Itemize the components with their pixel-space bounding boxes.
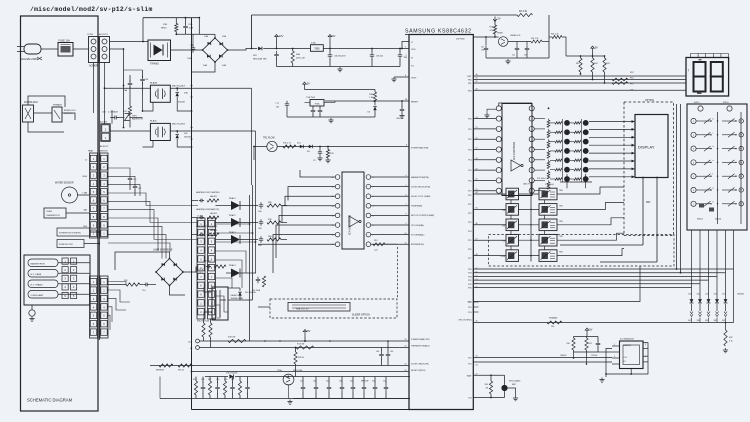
wires HV box bbox=[58, 262, 90, 264]
wire VDD pin to TR2 bbox=[473, 36, 498, 38]
svg-text:VDD: VDD bbox=[411, 49, 416, 51]
svg-text:RLA4B: RLA4B bbox=[150, 81, 157, 84]
svg-text:R60: R60 bbox=[576, 63, 579, 65]
pump motor label box bbox=[57, 240, 84, 248]
svg-text:19: 19 bbox=[476, 168, 478, 170]
resistors under strip C bbox=[202, 323, 205, 337]
matrix emitter rail bbox=[560, 181, 592, 183]
svg-text:h: h bbox=[713, 201, 714, 203]
svg-text:C40: C40 bbox=[350, 381, 353, 383]
svg-text:55: 55 bbox=[476, 287, 478, 289]
wires lamp bridge bbox=[108, 284, 126, 286]
key matrix right pins bbox=[739, 119, 743, 123]
svg-text:P57: P57 bbox=[468, 191, 471, 193]
connector CON1 bbox=[89, 37, 99, 63]
svg-text:5V: 5V bbox=[498, 18, 501, 21]
svg-text:PUMP MOTOR: PUMP MOTOR bbox=[59, 244, 73, 246]
connector strip CN3 bbox=[90, 276, 98, 338]
capacitor C1A bbox=[183, 23, 188, 30]
IC2 KID65004 body bbox=[502, 104, 532, 196]
wire relay1 feed bbox=[105, 87, 151, 89]
capacitor C20 bbox=[128, 175, 133, 182]
svg-text:6: 6 bbox=[406, 194, 407, 196]
connector CON2 bbox=[101, 124, 110, 142]
svg-text:P51: P51 bbox=[468, 302, 471, 304]
svg-text:150: 150 bbox=[524, 55, 527, 57]
wire KEY-OUT rail bbox=[473, 322, 733, 324]
capacitor C45 bbox=[596, 340, 601, 348]
resistor R16 bbox=[178, 364, 192, 367]
svg-text:C2A: C2A bbox=[187, 57, 192, 60]
svg-text:5: 5 bbox=[406, 185, 407, 187]
svg-text:2N4148: 2N4148 bbox=[178, 102, 185, 104]
IC2 right pins bbox=[529, 106, 534, 111]
capacitor C12A bbox=[285, 101, 290, 108]
svg-text:D45: D45 bbox=[714, 294, 717, 296]
svg-text:TCA 750K: TCA 750K bbox=[306, 96, 316, 99]
svg-text:/misc/model/mod2/sv-p12/s-slim: /misc/model/mod2/sv-p12/s-slim bbox=[30, 6, 153, 13]
transistor matrix bbox=[555, 122, 562, 124]
svg-text:2: 2 bbox=[645, 356, 646, 358]
svg-text:MAGNETRON: MAGNETRON bbox=[31, 262, 46, 265]
svg-text:14: 14 bbox=[476, 117, 478, 119]
svg-text:32: 32 bbox=[476, 81, 478, 83]
5V arrow pullups bbox=[591, 46, 595, 52]
wire door lock bbox=[34, 112, 52, 114]
svg-text:HELAY1: HELAY1 bbox=[210, 195, 217, 198]
svg-text:1N4148: 1N4148 bbox=[737, 294, 744, 296]
zener ZD1 bbox=[300, 145, 304, 149]
svg-text:8: 8 bbox=[614, 356, 615, 358]
key matrix column drops bbox=[691, 230, 693, 288]
svg-text:BKP: BKP bbox=[512, 384, 517, 386]
svg-text:P21: P21 bbox=[468, 364, 471, 366]
HV box pin squares bbox=[62, 258, 68, 264]
svg-text:SW1-5: SW1-5 bbox=[694, 102, 700, 104]
svg-text:REGULAR 78M: REGULAR 78M bbox=[253, 58, 267, 61]
svg-text:1/2W: 1/2W bbox=[189, 28, 194, 30]
svg-text:SW: SW bbox=[705, 320, 708, 322]
diode D4C for relay2 bbox=[175, 135, 179, 139]
capacitor row bottom right bbox=[301, 383, 306, 394]
svg-text:DISPLAY: DISPLAY bbox=[638, 145, 655, 150]
svg-text:R17 1M: R17 1M bbox=[297, 344, 305, 346]
svg-text:LATCH: LATCH bbox=[523, 183, 530, 186]
svg-text:8: 8 bbox=[406, 214, 407, 216]
svg-text:KRC102(AT): KRC102(AT) bbox=[509, 380, 521, 383]
svg-text:C41: C41 bbox=[326, 381, 329, 383]
key switch row 3 bbox=[696, 148, 711, 150]
svg-text:P60: P60 bbox=[630, 78, 633, 80]
capacitor C4A bbox=[274, 51, 279, 59]
svg-text:4: 4 bbox=[645, 344, 646, 346]
wire TR1 base bbox=[254, 146, 267, 148]
wire relay2 feed bbox=[110, 130, 150, 132]
svg-text:18: 18 bbox=[476, 158, 478, 160]
svg-text:5: 5 bbox=[614, 344, 615, 346]
svg-text:C21: C21 bbox=[138, 188, 141, 190]
svg-text:OVEN: OVEN bbox=[46, 211, 52, 213]
svg-text:C14: C14 bbox=[142, 290, 145, 292]
driver pair row 4 bbox=[506, 234, 519, 246]
svg-text:4.7k: 4.7k bbox=[729, 341, 733, 343]
svg-text:D1: D1 bbox=[624, 361, 626, 363]
wire vertical bus x191 bbox=[191, 18, 193, 410]
svg-text:5V: 5V bbox=[595, 45, 598, 49]
capacitor C11 bbox=[485, 37, 487, 45]
HV parts box bbox=[24, 255, 90, 305]
svg-text:H.V. CAPA: H.V. CAPA bbox=[31, 273, 42, 276]
junctions P20 P21 bbox=[573, 357, 575, 359]
neutral arrow bbox=[37, 57, 42, 60]
svg-text:C4: C4 bbox=[85, 160, 87, 162]
svg-text:P51: P51 bbox=[468, 129, 471, 131]
resistor R4 bbox=[517, 13, 533, 16]
wire key bus 5 bbox=[473, 287, 691, 289]
wires CON2 area bbox=[110, 117, 113, 119]
wire bus P63 bbox=[473, 89, 685, 91]
key switch row 2 bbox=[696, 134, 711, 136]
wire snubber to bridge top bbox=[198, 18, 200, 35]
svg-text:H.V. TRANS: H.V. TRANS bbox=[31, 283, 44, 286]
svg-text:33: 33 bbox=[476, 88, 478, 90]
svg-text:IC3 KIA4011B: IC3 KIA4011B bbox=[620, 338, 634, 341]
wire fuse to connector bbox=[73, 48, 89, 50]
display module box bbox=[635, 115, 668, 178]
7-segment digit 1 bbox=[694, 62, 706, 77]
svg-text:DOOR SEQ.NO(P40): DOOR SEQ.NO(P40) bbox=[411, 186, 431, 188]
capacitor C5A bbox=[328, 51, 333, 60]
svg-text:AC(T)N: AC(T)N bbox=[100, 120, 107, 123]
wires strip B to right bbox=[108, 282, 126, 285]
IC4 left pins bbox=[335, 175, 340, 180]
svg-text:D43: D43 bbox=[705, 294, 708, 296]
svg-text:20: 20 bbox=[476, 179, 478, 181]
diode D10 bbox=[238, 292, 242, 296]
svg-text:DP 120V(FA4): DP 120V(FA4) bbox=[411, 224, 424, 227]
svg-text:10: 10 bbox=[405, 233, 407, 235]
svg-text:R5L 2.2k: R5L 2.2k bbox=[531, 38, 539, 40]
svg-text:C12: C12 bbox=[512, 55, 515, 57]
transistor TR30 bbox=[283, 374, 294, 385]
diode D6 bbox=[373, 107, 377, 111]
pullup rail bbox=[566, 55, 605, 57]
wire VDD corner bbox=[402, 42, 409, 49]
svg-text:21: 21 bbox=[476, 189, 478, 191]
svg-text:KEY-OUT(P50): KEY-OUT(P50) bbox=[459, 320, 472, 322]
resistor R13 buzzer bbox=[373, 243, 385, 246]
svg-text:SW(-7): SW(-7) bbox=[697, 219, 703, 221]
svg-text:750K: 750K bbox=[314, 103, 320, 105]
IC4 inverter symbol bbox=[349, 216, 359, 227]
svg-text:48: 48 bbox=[476, 254, 478, 256]
svg-text:SW: SW bbox=[697, 320, 700, 322]
wire WAIT bbox=[473, 374, 504, 376]
svg-text:R45: R45 bbox=[485, 384, 488, 386]
svg-text:222: 222 bbox=[383, 381, 386, 383]
wire power fail line bbox=[277, 146, 409, 148]
svg-text:4: 4 bbox=[405, 75, 406, 77]
svg-text:COOL A: COOL A bbox=[196, 268, 204, 271]
IC4 KID65003 body bbox=[342, 172, 364, 249]
svg-text:KIA4558: KIA4558 bbox=[624, 344, 631, 347]
svg-text:P52: P52 bbox=[468, 307, 471, 309]
svg-text:0.1 MKADE: 0.1 MKADE bbox=[108, 111, 119, 114]
relay RY5 thermostat box bbox=[212, 287, 228, 320]
svg-text:R42: R42 bbox=[729, 337, 732, 339]
svg-text:C13: C13 bbox=[201, 379, 204, 381]
svg-text:CON1: CON1 bbox=[87, 34, 94, 36]
svg-text:D1A: D1A bbox=[204, 35, 209, 38]
wire top loop with R4 bbox=[548, 15, 550, 58]
relay RY4 snubber bbox=[206, 265, 211, 269]
regulator IC4A 7805 bbox=[311, 45, 324, 52]
svg-text:44: 44 bbox=[476, 192, 478, 194]
svg-text:1: 1 bbox=[693, 121, 694, 123]
svg-text:21: 21 bbox=[405, 346, 407, 348]
wire key bus 1 bbox=[473, 272, 725, 274]
capacitor C9 bbox=[318, 149, 323, 156]
svg-text:TRIAC1: TRIAC1 bbox=[229, 197, 237, 200]
thyristor TRIAC2 bbox=[199, 216, 204, 220]
wire relay1 return loop bbox=[143, 102, 154, 111]
wires IC4 inputs bbox=[300, 170, 335, 177]
svg-text:P53: P53 bbox=[468, 312, 471, 314]
svg-text:STIRRER MOTOR(F/M): STIRRER MOTOR(F/M) bbox=[59, 233, 81, 235]
svg-text:5V: 5V bbox=[307, 329, 310, 333]
driver pair row 5 bbox=[506, 250, 519, 262]
wire bus P60 bbox=[473, 79, 685, 81]
thyristor TRIAC1 bbox=[199, 199, 204, 203]
svg-text:OVEN LAMP: OVEN LAMP bbox=[31, 294, 44, 297]
svg-text:TEST: TEST bbox=[411, 78, 417, 80]
svg-text:4: 4 bbox=[693, 162, 694, 164]
svg-text:IC4 KID65003B: IC4 KID65003B bbox=[348, 215, 352, 235]
svg-text:D6: D6 bbox=[368, 112, 370, 114]
svg-text:26: 26 bbox=[405, 370, 407, 372]
svg-text:TR1 FLOW: TR1 FLOW bbox=[263, 138, 275, 140]
svg-text:C15: C15 bbox=[300, 381, 303, 383]
svg-text:C7A 104: C7A 104 bbox=[376, 55, 383, 58]
svg-text:P62: P62 bbox=[630, 84, 633, 86]
wire snubber top rail bbox=[143, 17, 199, 19]
connector pins bottom left bbox=[196, 339, 200, 343]
svg-text:D4C: D4C bbox=[184, 133, 188, 135]
svg-text:P50: P50 bbox=[468, 119, 471, 121]
svg-text:1.2k: 1.2k bbox=[224, 379, 227, 381]
wires strip A to right bbox=[108, 168, 130, 175]
connector strip CN4 bbox=[197, 218, 205, 319]
svg-text:P54: P54 bbox=[468, 160, 471, 162]
option dashed box bbox=[624, 102, 674, 236]
key switch row 6 bbox=[696, 189, 711, 191]
5V arrow with pullup R7A bbox=[493, 17, 497, 22]
resistor R24A bbox=[126, 283, 140, 286]
svg-text:R1B: R1B bbox=[163, 24, 168, 26]
snubber for TRIAC1 bbox=[259, 202, 264, 209]
svg-text:5V: 5V bbox=[307, 81, 310, 85]
svg-text:SW1-6: SW1-6 bbox=[723, 102, 729, 104]
svg-text:MOTOR CONTROL(FAN): MOTOR CONTROL(FAN) bbox=[411, 214, 434, 217]
capacitor C7A bbox=[370, 51, 375, 60]
svg-text:D44: D44 bbox=[697, 294, 700, 296]
label OVEN LAMP bbox=[28, 291, 58, 299]
svg-text:104: 104 bbox=[276, 107, 279, 109]
svg-text:P32: P32 bbox=[468, 280, 471, 282]
svg-text:R'S 150x8: R'S 150x8 bbox=[545, 184, 554, 186]
svg-text:DOOR/LOCK: DOOR/LOCK bbox=[24, 102, 38, 104]
svg-text:40: 40 bbox=[476, 321, 478, 323]
snubber for TRIAC3 bbox=[259, 236, 264, 243]
svg-text:T.TAB: T.TAB bbox=[82, 192, 88, 195]
key matrix left pins bbox=[691, 118, 696, 123]
svg-text:C20: C20 bbox=[133, 179, 136, 181]
capacitor C2B bbox=[140, 76, 145, 84]
MCU left pin TEST bbox=[394, 76, 409, 78]
svg-text:P30: P30 bbox=[468, 288, 471, 290]
svg-text:SND 9V-12BLK: SND 9V-12BLK bbox=[172, 86, 186, 88]
svg-text:46: 46 bbox=[476, 223, 478, 225]
svg-text:22: 22 bbox=[405, 339, 407, 341]
wire key bus 0 bbox=[473, 268, 733, 270]
svg-text:P31: P31 bbox=[468, 284, 471, 286]
svg-text:R15: R15 bbox=[208, 379, 211, 381]
wire transformer secondary bbox=[171, 49, 203, 51]
svg-text:51: 51 bbox=[476, 272, 478, 274]
wire AN1 rail bbox=[199, 347, 409, 349]
MCU U1 box bbox=[409, 35, 473, 410]
key switch row 7 bbox=[696, 203, 711, 205]
svg-text:4: 4 bbox=[406, 175, 407, 177]
svg-text:TRIAC4: TRIAC4 bbox=[229, 264, 237, 267]
clock module CLK bbox=[310, 100, 324, 107]
wire bus x252 bbox=[252, 185, 254, 300]
wire monitor line bbox=[192, 371, 410, 373]
svg-text:5: 5 bbox=[693, 176, 694, 178]
svg-text:SW: SW bbox=[714, 320, 717, 322]
svg-text:P52: P52 bbox=[468, 139, 471, 141]
12V arrow bbox=[275, 35, 279, 41]
interlock switch box bbox=[52, 107, 62, 122]
wire slider bbox=[258, 306, 270, 308]
svg-text:4.7k: 4.7k bbox=[489, 30, 493, 32]
svg-text:INTERLOCK: INTERLOCK bbox=[64, 110, 76, 112]
wires MCU to IC2 bbox=[473, 118, 496, 120]
svg-text:D2A: D2A bbox=[222, 35, 227, 38]
svg-text:R11 4.7k: R11 4.7k bbox=[283, 143, 291, 145]
wire sensor leads bbox=[78, 194, 90, 196]
wire vertical bus on box edge bbox=[98, 62, 100, 340]
key matrix top pins bbox=[698, 106, 703, 111]
svg-text:HEAT: HEAT bbox=[88, 150, 94, 153]
wire TR2 emitter row bbox=[508, 41, 531, 43]
connector strip CN2 bbox=[90, 153, 98, 238]
backup transistor Q40 bbox=[501, 385, 507, 391]
capacitor C21 bbox=[133, 183, 138, 190]
svg-text:SND 9V-12BLK: SND 9V-12BLK bbox=[172, 124, 186, 126]
svg-text:R33(BAT): R33(BAT) bbox=[549, 317, 558, 320]
svg-text:54: 54 bbox=[476, 283, 478, 285]
capacitor C3A bbox=[128, 80, 133, 88]
resistor R5L bbox=[531, 40, 542, 43]
resistor R60 bbox=[579, 58, 582, 72]
wire P21 line bbox=[473, 361, 612, 363]
wire AN0 rail bbox=[199, 340, 409, 342]
wire plug to fuse bbox=[41, 48, 58, 50]
capacitor C44 pair bbox=[379, 350, 384, 359]
slider option dashed box bbox=[270, 299, 397, 318]
slider pcb box bbox=[288, 303, 350, 312]
svg-text:R41: R41 bbox=[589, 343, 592, 345]
svg-text:THERMISTOR: THERMISTOR bbox=[46, 215, 60, 217]
svg-text:D30 1N4148: D30 1N4148 bbox=[226, 373, 238, 375]
resistor R19 bbox=[228, 339, 246, 342]
thyristor TRIAC3 bbox=[199, 233, 204, 237]
svg-text:SW: SW bbox=[722, 320, 725, 322]
wire reset line bbox=[325, 100, 409, 102]
wire main 12V rail bbox=[263, 48, 310, 50]
svg-text:CERALOCK: CERALOCK bbox=[510, 34, 521, 37]
svg-text:BUZZER(P46): BUZZER(P46) bbox=[411, 244, 424, 246]
vertical bus between driver columns bbox=[530, 182, 532, 262]
wire bus P61 bbox=[473, 82, 685, 84]
svg-text:52: 52 bbox=[476, 275, 478, 277]
resistor R17 bbox=[296, 346, 314, 349]
svg-text:HEATER(CONV,TOASTER): HEATER(CONV,TOASTER) bbox=[196, 191, 220, 194]
7-segment display DSP1 box bbox=[686, 58, 729, 97]
key switch row 4 bbox=[696, 161, 711, 163]
svg-text:T.T2: T.T2 bbox=[275, 103, 279, 105]
svg-text:3: 3 bbox=[693, 149, 694, 151]
snubber RC row4 bbox=[256, 277, 261, 284]
wire pullup to IC3 bbox=[574, 351, 599, 353]
svg-text:30: 30 bbox=[476, 74, 478, 76]
svg-text:R4 3.3k: R4 3.3k bbox=[519, 11, 528, 13]
svg-text:SLIDER OPTION: SLIDER OPTION bbox=[352, 315, 370, 317]
wire top rail to oscillator bbox=[252, 14, 518, 16]
svg-text:MONITOR(P61): MONITOR(P61) bbox=[411, 370, 426, 372]
water sensor bbox=[62, 187, 78, 203]
svg-text:47: 47 bbox=[476, 238, 478, 240]
svg-text:C24: C24 bbox=[374, 250, 377, 252]
wire vertical link A bbox=[676, 104, 678, 269]
svg-text:RLA4C: RLA4C bbox=[150, 120, 157, 123]
svg-text:P53: P53 bbox=[468, 149, 471, 151]
svg-text:RST: RST bbox=[646, 202, 651, 204]
AC plug P1 bbox=[24, 44, 41, 54]
diode D30 bbox=[205, 376, 228, 378]
wire key bus 3 bbox=[473, 279, 708, 281]
svg-text:50: 50 bbox=[476, 268, 478, 270]
wires triac rows to strip bbox=[192, 200, 199, 202]
svg-text:R1B: R1B bbox=[369, 94, 374, 96]
5V arrow bottom bbox=[303, 330, 307, 336]
svg-text:TRANS: TRANS bbox=[150, 62, 159, 66]
svg-text:ST.TURN(A4L): ST.TURN(A4L) bbox=[411, 233, 425, 236]
svg-text:LN5: LN5 bbox=[630, 90, 633, 92]
ground rail bottom bbox=[160, 398, 410, 400]
matrix common verticals bbox=[562, 119, 564, 182]
svg-text:100: 100 bbox=[551, 326, 554, 328]
display top ticks bbox=[690, 54, 692, 58]
capacitor C9B bbox=[400, 106, 405, 114]
wire bus x255 bbox=[255, 131, 257, 273]
base resistor column bbox=[534, 118, 545, 120]
svg-text:PBB (TT) SV: PBB (TT) SV bbox=[296, 309, 309, 311]
svg-text:R1A: R1A bbox=[189, 23, 194, 26]
svg-text:HEATER(STR.L)/BK(OR): HEATER(STR.L)/BK(OR) bbox=[196, 225, 218, 228]
label MAGNETRON bbox=[28, 259, 58, 267]
